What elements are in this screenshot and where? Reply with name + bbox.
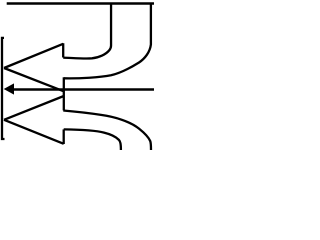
thin arrow shaft (13, 88, 154, 91)
top block arrow lower diagonal (4, 68, 64, 91)
left vertical line (2, 38, 5, 139)
middle shared notch vertical (63, 77, 65, 110)
top border line (7, 2, 154, 5)
top block arrow inner boundary curve (63, 4, 111, 59)
bottom block arrow inner boundary curve (63, 111, 151, 151)
top block arrow upper notch vertical (62, 43, 64, 57)
bottom block arrow lower notch vertical (63, 129, 65, 144)
bottom block arrow upper diagonal (4, 96, 64, 120)
thin arrow head (solid) (4, 83, 14, 94)
top block arrow outer boundary curve (64, 4, 151, 79)
bottom block arrow lower diagonal (4, 120, 64, 144)
bottom block arrow outer boundary curve (64, 129, 121, 150)
top block arrow upper diagonal (4, 44, 63, 68)
